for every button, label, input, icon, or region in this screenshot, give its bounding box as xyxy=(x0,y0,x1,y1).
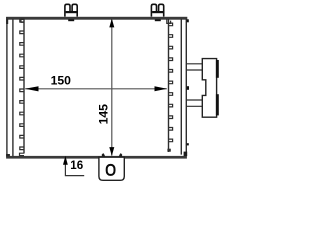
right fin edge bottom cap xyxy=(167,149,170,152)
left side plate bottom serif xyxy=(6,154,10,156)
right tank bottom cap xyxy=(184,152,188,157)
dimension line 145 xyxy=(111,19,113,156)
flange seal band lower xyxy=(216,94,219,115)
tank clip nub bottom xyxy=(187,143,189,145)
tab slot hole xyxy=(107,165,115,175)
left side plate top serif xyxy=(6,19,8,24)
outlet pipe stub lower xyxy=(186,100,202,106)
left fin edge base line xyxy=(23,19,25,154)
right tank left wall xyxy=(180,19,182,155)
clip foot top-left xyxy=(68,19,74,21)
right fin edge base line xyxy=(168,19,170,152)
arrowhead 150 left xyxy=(25,86,39,91)
left fin teeth xyxy=(20,19,24,149)
mounting clip top-right xyxy=(151,4,163,16)
right fin edge top cap xyxy=(167,19,171,24)
arrowhead 150 right xyxy=(155,86,168,91)
left side plate outer line xyxy=(6,17,8,157)
right tank right wall xyxy=(185,19,187,155)
left fin edge top cap xyxy=(21,19,24,23)
clip foot top-right xyxy=(155,19,161,21)
tank clip nub middle xyxy=(187,86,189,90)
tab ear left xyxy=(102,153,106,156)
flange seal band upper xyxy=(216,60,219,78)
core top plate xyxy=(6,17,187,20)
mounting clip top-left xyxy=(65,4,77,16)
bottom mounting tab xyxy=(99,157,124,180)
inlet pipe stub upper xyxy=(186,64,202,70)
dimension 16 leader xyxy=(65,161,84,176)
right fin teeth xyxy=(169,23,173,142)
arrowhead 16 up xyxy=(63,156,68,165)
left side plate inner line xyxy=(12,19,14,156)
connector flange block xyxy=(202,59,216,118)
dimension line 150 xyxy=(25,88,167,90)
arrowhead 145 top xyxy=(109,19,114,28)
arrowhead 145 bottom xyxy=(109,147,114,156)
svg-text:16: 16 xyxy=(70,159,83,172)
svg-text:150: 150 xyxy=(51,74,72,88)
core bottom plate xyxy=(6,156,187,159)
svg-text:145: 145 xyxy=(97,104,111,125)
tank clip nub top xyxy=(187,19,189,22)
tab ear right xyxy=(119,153,123,156)
left fin edge bottom cap xyxy=(20,153,25,155)
